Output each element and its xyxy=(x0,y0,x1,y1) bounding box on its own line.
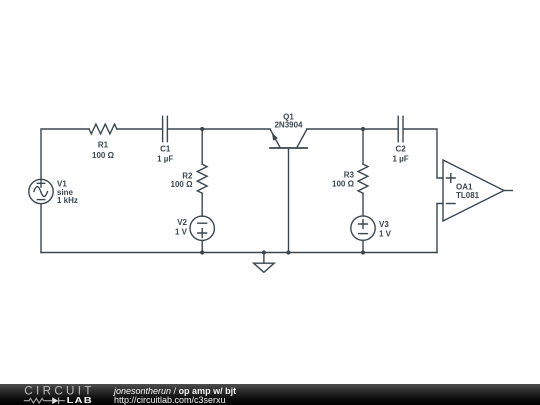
wire Q1 collector to C2 xyxy=(307,128,398,130)
svg-text:1 V: 1 V xyxy=(379,229,392,238)
wire C1 to Q1 emitter terminal xyxy=(168,128,270,130)
capacitor C2 xyxy=(393,116,409,163)
svg-text:1 V: 1 V xyxy=(175,228,188,237)
svg-text:R3: R3 xyxy=(344,171,355,180)
wire node down to R3 xyxy=(362,129,364,164)
svg-text:1 kHz: 1 kHz xyxy=(57,196,78,205)
svg-text:100 Ω: 100 Ω xyxy=(171,180,194,189)
svg-text:TL081: TL081 xyxy=(456,191,480,200)
node at R3 top xyxy=(361,127,365,131)
node Q1 base junction xyxy=(286,250,290,254)
resistor R2 xyxy=(171,164,208,193)
node at C1/R2 junction xyxy=(200,127,204,131)
footer bar xyxy=(0,384,540,405)
wire V3 to bottom rail xyxy=(362,240,364,252)
svg-text:1 µF: 1 µF xyxy=(393,154,409,163)
wire node down to R2 xyxy=(201,129,203,164)
voltage source V1 sine xyxy=(29,179,78,205)
transistor Q1 xyxy=(270,112,307,252)
svg-text:LAB: LAB xyxy=(67,396,93,405)
svg-text:1 µF: 1 µF xyxy=(157,154,173,163)
svg-text:100 Ω: 100 Ω xyxy=(332,180,355,189)
wire op-amp output xyxy=(504,190,512,192)
svg-text:2N3904: 2N3904 xyxy=(274,121,303,130)
svg-text:100 Ω: 100 Ω xyxy=(92,151,115,160)
svg-text:V2: V2 xyxy=(177,218,187,227)
footer text xyxy=(114,387,236,405)
wire V1 bottom to bottom rail xyxy=(40,204,42,253)
wire R1 to C1 xyxy=(117,128,162,130)
CircuitLab logo xyxy=(0,384,100,405)
node V3 bottom xyxy=(361,250,365,254)
op-amp OA1 xyxy=(443,160,504,221)
capacitor C1 xyxy=(157,116,173,163)
voltage source V2 xyxy=(175,216,214,240)
wire V2 to bottom rail xyxy=(201,241,203,253)
bottom rail xyxy=(41,252,437,254)
svg-text:C1: C1 xyxy=(160,145,171,154)
svg-text:V3: V3 xyxy=(379,220,389,229)
wire top-left from V1 up and right to R1 xyxy=(41,129,89,179)
resistor R1 xyxy=(89,124,117,160)
wire R3 to V3 xyxy=(362,193,364,216)
svg-text:R1: R1 xyxy=(98,140,109,149)
node V2 bottom xyxy=(200,250,204,254)
wire R2 to V2 xyxy=(201,193,203,216)
resistor R3 xyxy=(332,164,368,193)
ground xyxy=(254,253,275,273)
voltage source V3 xyxy=(351,216,392,240)
wire bottom rail up to op-amp minus input xyxy=(437,204,443,253)
svg-text:C2: C2 xyxy=(395,145,406,154)
node ground junction xyxy=(262,250,266,254)
wire C2 to op-amp plus input xyxy=(403,129,443,178)
